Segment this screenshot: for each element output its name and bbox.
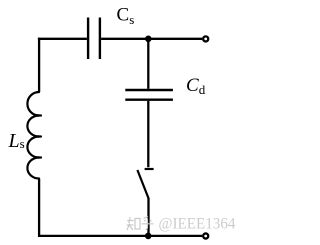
svg-text:Cs: Cs — [117, 5, 135, 28]
capacitor C_s — [88, 18, 100, 60]
svg-text:Cd: Cd — [186, 75, 206, 97]
svg-text:@IEEE1364: @IEEE1364 — [159, 215, 236, 232]
watermark 乎 (gray strokes) — [142, 217, 154, 231]
switch fixed contact bar — [145, 168, 154, 170]
wire top-left horizontal — [38, 38, 87, 40]
terminal top-right — [203, 36, 208, 41]
node junction bottom — [145, 233, 152, 240]
watermark 知 (gray strokes) — [127, 217, 140, 230]
terminal bottom-right — [203, 233, 208, 238]
wire bottom horizontal — [38, 235, 202, 237]
svg-text:Ls: Ls — [8, 130, 25, 152]
wire middle branch between Cd and switch — [147, 101, 149, 167]
wire left vertical lower — [38, 179, 40, 238]
capacitor C_d — [125, 90, 173, 100]
wire middle branch upper — [147, 39, 149, 89]
wire top-right horizontal — [101, 38, 202, 40]
wire middle branch lower — [147, 198, 149, 236]
node junction top — [145, 36, 152, 43]
wire left vertical upper — [38, 38, 40, 92]
switch blade — [137, 170, 148, 199]
inductor L_s — [27, 92, 41, 179]
